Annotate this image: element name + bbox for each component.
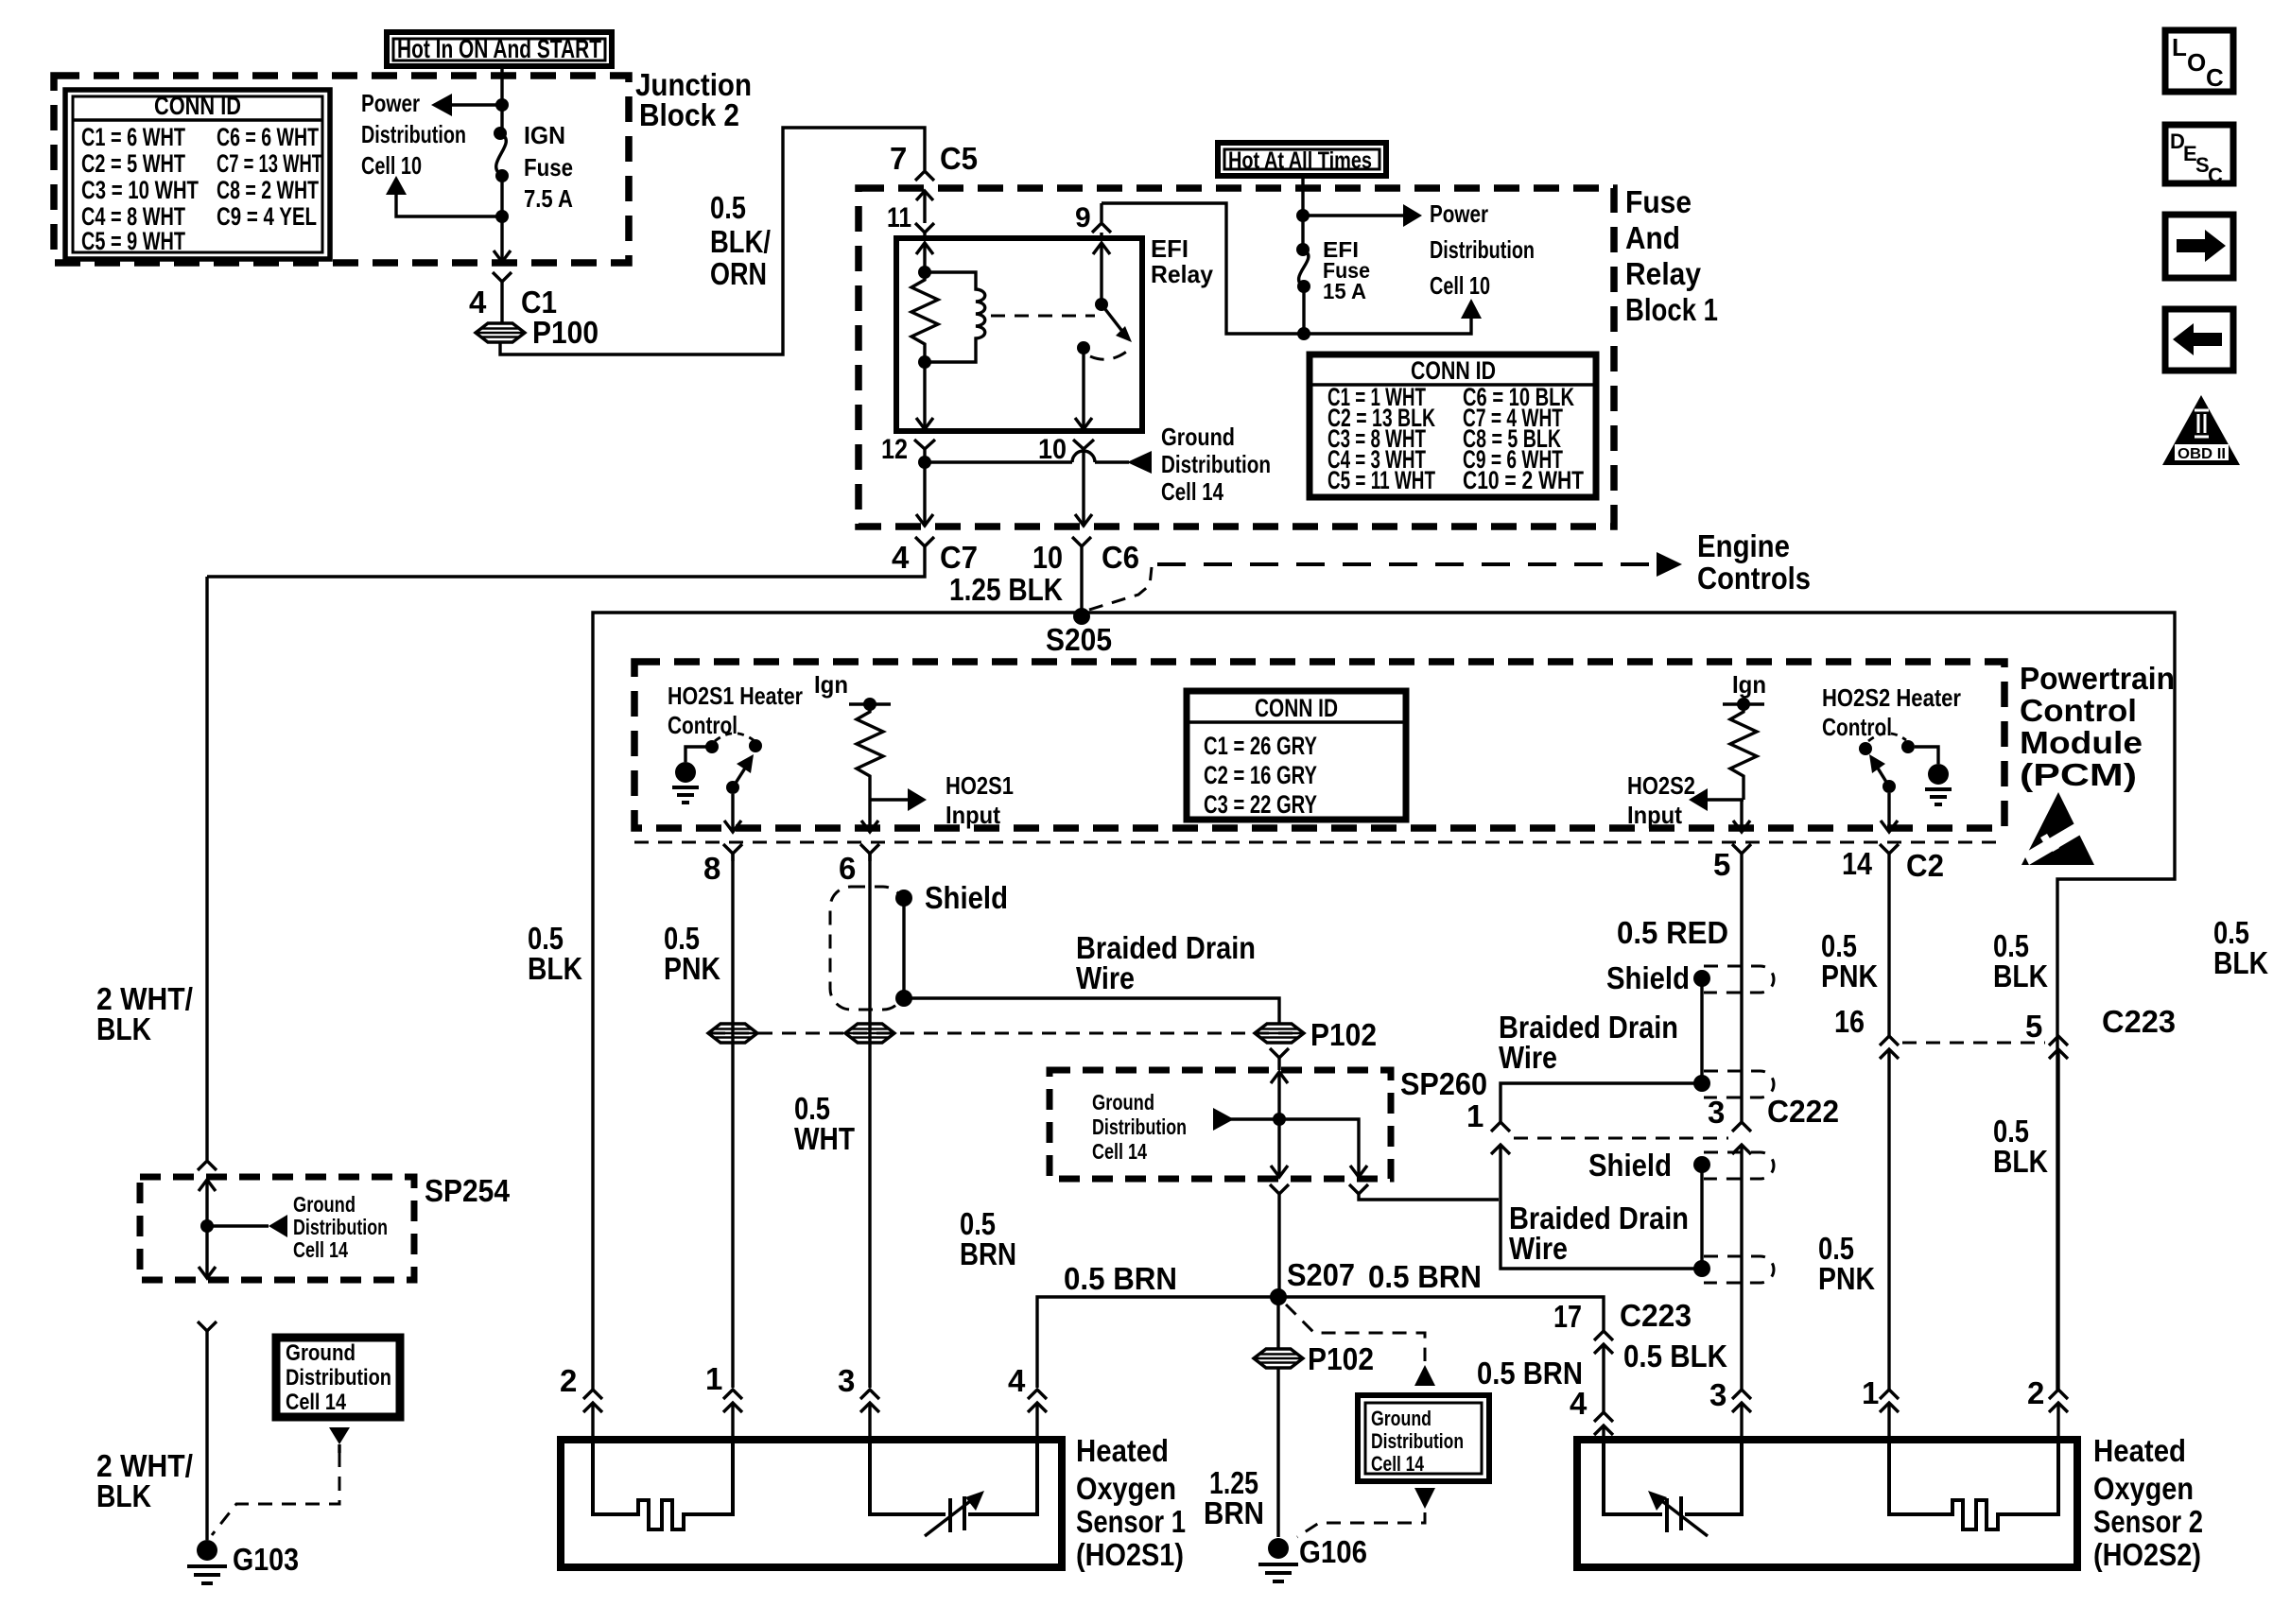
svg-text:Cell 14: Cell 14 [1161,477,1223,506]
wire jog continues below C223 pin5 [2056,1049,2059,1390]
svg-text:Cell 10: Cell 10 [361,151,422,180]
HO2S2 box [1577,1440,2077,1567]
svg-text:Control: Control [2020,693,2137,728]
svg-text:CONN ID: CONN ID [1411,356,1496,385]
svg-text:PNK: PNK [1821,959,1878,993]
svg-text:15 A: 15 A [1323,279,1366,303]
svg-text:P100: P100 [532,315,599,350]
svg-text:WHT: WHT [794,1121,855,1156]
svg-text:10: 10 [1038,434,1067,465]
HO2S1 box [561,1440,1062,1567]
svg-text:0.5 BRN: 0.5 BRN [1064,1261,1177,1296]
label 0.5 BLK/ORN [710,190,771,291]
svg-text:Sensor 2: Sensor 2 [2093,1504,2203,1539]
svg-text:5: 5 [2025,1009,2042,1044]
svg-text:2: 2 [2027,1375,2044,1410]
Hot In ON And START box [387,32,612,66]
label 2 WHT/ BLK lower [96,1448,193,1513]
svg-text:4: 4 [892,540,910,575]
svg-text:Power: Power [1430,199,1488,228]
down triangle below right GD box [1414,1488,1435,1509]
svg-text:Control: Control [1822,713,1892,741]
node and branch to Cell 10 (up arrow) [386,176,509,223]
svg-text:Block 2: Block 2 [639,97,739,132]
svg-text:Ground: Ground [1092,1090,1154,1114]
label 0.5 WHT [794,1091,855,1156]
svg-text:C7: C7 [940,540,978,575]
ground G106 [1258,1534,1367,1581]
svg-text:Powertrain: Powertrain [2020,661,2175,696]
svg-text:G103: G103 [233,1542,299,1577]
SP254 top chevron [198,1161,217,1170]
label Powertrain Control Module (PCM) [2020,661,2175,792]
svg-text:C: C [2206,63,2224,92]
shield upper (C222 above) [1606,960,1774,1097]
svg-text:C3 = 10 WHT: C3 = 10 WHT [81,176,199,204]
wire pin6 to HO2S1 pin3 [868,854,871,1388]
label 0.5 PNK lower [1818,1231,1875,1296]
inline connector on pin3 wire [845,1024,894,1043]
svg-text:2: 2 [560,1363,577,1398]
svg-text:0.5 BLK: 0.5 BLK [1623,1339,1727,1373]
EFI relay box [896,238,1142,431]
svg-text:Distribution: Distribution [1092,1114,1187,1139]
SP260 arrow from text [1213,1108,1279,1131]
svg-text:8: 8 [703,851,720,886]
svg-text:S205: S205 [1046,622,1112,657]
svg-text:1: 1 [705,1361,722,1396]
svg-text:Block 1: Block 1 [1625,292,1718,327]
relay pin 9 wire from EFI fuse [1075,202,1304,334]
relay pin 11 fork [887,202,934,238]
svg-text:CONN ID: CONN ID [1255,694,1338,722]
svg-text:Distribution: Distribution [286,1365,391,1391]
pin 6 wire and arrow [861,800,878,832]
HO2S2 input resistor [1730,704,1757,800]
wire C7 down left side [205,577,208,1160]
label 0.5 BLK (pin2 wire) [528,921,582,986]
relay actuation dashed link [991,315,1095,318]
svg-text:0.5 RED: 0.5 RED [1617,915,1728,950]
svg-text:Input: Input [946,801,1000,829]
svg-text:7: 7 [890,141,907,176]
left arrow icon [2165,309,2233,371]
svg-text:Shield: Shield [925,880,1008,915]
svg-text:Wire: Wire [1076,960,1135,995]
svg-text:C222: C222 [1767,1094,1839,1129]
svg-text:Sensor 1: Sensor 1 [1076,1504,1186,1539]
ground distribution branch with hop [918,451,1152,474]
svg-text:10: 10 [1032,540,1063,575]
SP260 bottom forks [1270,1184,1499,1297]
SP260 main down arrow [1271,1119,1288,1177]
engine controls dashed reference [1089,528,1811,610]
SP254 internal up arrow [199,1180,216,1226]
svg-text:C2 = 5 WHT: C2 = 5 WHT [81,149,185,178]
svg-text:Power: Power [361,89,420,117]
connector P102 lower [1254,1341,1374,1376]
wire P100 to C5 (0.5 BLK/ORN) [500,128,925,354]
up triangle above right GD box [1414,1365,1435,1386]
label Braided Drain Wire (top right) [1499,1010,1678,1075]
Ground Distribution Cell 14 box (left) [276,1338,400,1417]
svg-text:C223: C223 [1620,1298,1692,1333]
fuse and relay block 1 dashed outline [859,188,1614,527]
svg-text:HO2S1: HO2S1 [946,771,1014,800]
svg-text:C6 = 6 WHT: C6 = 6 WHT [217,123,319,151]
svg-text:14: 14 [1842,846,1873,881]
right arrow icon [2165,215,2233,278]
svg-text:C3 = 22 GRY: C3 = 22 GRY [1204,790,1317,819]
svg-text:Cell 10: Cell 10 [1430,271,1490,300]
wire PCM pin5 down through shields to C222 pin3 [1740,861,1743,1390]
HO2S1 Input arrow [870,771,1014,829]
svg-text:IGN: IGN [524,121,565,149]
label Heated Oxygen Sensor 1 (HO2S1) [1076,1433,1186,1572]
ESD symbol [2021,792,2094,865]
relay pin 10 fork below [1038,434,1094,527]
svg-text:1: 1 [1862,1375,1879,1410]
relay coil inductor [918,272,985,369]
svg-text:Input: Input [1627,801,1682,829]
connector C223 pin 17 [1553,1298,1692,1412]
pin 14 fork C2 [1842,844,1944,883]
shield around HO2S1 signal wire [830,880,1008,1010]
HO2S1 heater control switch [715,734,762,794]
ground bus wire from S205 [593,613,2175,1390]
connector P102 (drain) [1255,1017,1377,1052]
wire pin8 to HO2S1 pin1 [731,854,734,1388]
CONN ID table 3 (PCM) [1187,691,1406,820]
svg-text:G106: G106 [1299,1534,1367,1569]
label 0.5 BLK below C223-17 [1623,1339,1727,1373]
svg-text:Ground: Ground [286,1340,356,1366]
connector P100 [476,315,599,350]
svg-text:17: 17 [1553,1299,1582,1334]
svg-text:(HO2S2): (HO2S2) [2093,1537,2201,1572]
svg-text:O: O [2187,48,2206,77]
pin 5 wire and arrow [1733,800,1750,832]
svg-text:OBD II: OBD II [2178,446,2226,462]
svg-text:BLK: BLK [1993,959,2048,993]
wire from Hot box down to IGN fuse [500,66,503,131]
svg-text:Relay: Relay [1151,260,1214,288]
braided drain wire to P102 [904,998,1279,1024]
HO2S2 heater control switch ground [1915,747,1952,804]
label 2 WHT/ BLK upper [96,981,193,1046]
svg-text:PNK: PNK [664,951,720,986]
svg-text:P102: P102 [1310,1017,1377,1052]
P102 lower fork [1270,1048,1289,1070]
down triangle below left GD box [329,1427,350,1453]
svg-text:Module: Module [2020,725,2143,760]
svg-text:C5: C5 [940,141,978,176]
HO2S2 pin 4 chevrons [1570,1386,1613,1440]
fuse IGN 7.5 A [494,127,509,216]
svg-text:Cell 14: Cell 14 [286,1390,347,1415]
label 0.5 RED [1617,915,1728,950]
svg-text:6: 6 [839,851,856,886]
HO2S2 pin chevrons 3 1 2 [1709,1377,1751,1440]
svg-text:4: 4 [469,285,487,320]
Ground Distribution Cell 14 box (right) [1358,1395,1489,1481]
label EFI Fuse 15 A [1323,237,1370,303]
pin 5 fork [1713,844,1751,882]
label EFI Relay [1151,234,1214,288]
HO2S2 sensing element [1604,1440,1742,1536]
svg-text:Ign: Ign [1732,670,1766,699]
label 0.5 BLK lower [1993,1114,2048,1179]
CONN ID table 1 [65,90,330,259]
svg-text:Cell 14: Cell 14 [293,1237,348,1262]
svg-text:Cell 14: Cell 14 [1092,1139,1147,1164]
dashed reference to G106 [1297,1512,1425,1537]
label 0.5 PNK (pin8 wire) [664,921,720,986]
label HO2S2 Heater Control [1822,683,1961,741]
svg-text:5: 5 [1713,847,1730,882]
wire S207 down to P102 [1276,1297,1279,1348]
SP254 node and arrow to ground distribution [200,1215,287,1237]
Hot At All Times box [1218,143,1386,176]
node and arrow to Power Distribution [1296,204,1422,227]
connector C7 pin 4 [207,537,978,577]
HO2S1 heater control switch ground [672,740,719,803]
drain wire shield2 to C222 pin1 [1501,1083,1702,1122]
svg-text:Cell 14: Cell 14 [1371,1452,1425,1476]
relay switch [1077,243,1132,359]
fuse EFI 15 A [1296,243,1310,334]
connector C223 pins 16 / 5 [1834,1004,2176,1059]
svg-text:Hot In ON And START: Hot In ON And START [397,34,601,63]
connector C222 [1491,1094,1839,1200]
label 0.5 BRN left of S207 [1064,1261,1177,1296]
svg-text:Fuse: Fuse [524,153,573,181]
svg-text:3: 3 [838,1363,855,1398]
HO2S2 Input arrow [1627,771,1744,829]
pin 8 fork [703,844,742,886]
svg-text:C10 = 2 WHT: C10 = 2 WHT [1463,466,1584,494]
PCM connector interface dashed line [634,841,2004,844]
DESC icon [2165,125,2233,187]
wire pin14 down [1887,861,1890,1390]
SP260 right branch down arrow [1279,1119,1367,1177]
HO2S2 heater control switch [1859,734,1915,793]
splice SP260 dashed box [1050,1070,1391,1179]
svg-text:BLK: BLK [1993,1144,2048,1179]
svg-text:Shield: Shield [1606,960,1690,995]
label Ground Distribution Cell 14 (fuse block) [1161,423,1271,506]
connector C5 pin 7 [890,141,978,181]
inline connector on pin1 wire [708,1024,757,1043]
label Braided Drain Wire (left) [1076,930,1256,995]
svg-text:3: 3 [1708,1095,1725,1130]
junction block 2 dashed outline [54,76,629,263]
label SP254 [425,1173,511,1208]
label Braided Drain Wire (lower right) [1509,1201,1689,1266]
relay coil resistor [911,272,938,362]
label 1.25 BLK [949,572,1063,607]
pin 6 fork [839,844,879,886]
label IGN Fuse 7.5 A [524,121,573,213]
label Junction Block 2 [635,67,752,132]
svg-text:Ground: Ground [293,1192,356,1217]
svg-text:HO2S2 Heater: HO2S2 Heater [1822,683,1961,712]
label 0.5 PNK upper [1821,928,1878,993]
label SP260 and C222 pin 1 [1400,1066,1487,1133]
wire S207 to HO2S1 pin 4 [1037,1297,1278,1388]
svg-text:ORN: ORN [710,256,767,291]
svg-text:HO2S1 Heater: HO2S1 Heater [668,682,803,710]
svg-text:C7 = 13 WHT: C7 = 13 WHT [217,149,322,178]
svg-text:(HO2S1): (HO2S1) [1076,1537,1184,1572]
SP260 node [1273,1113,1286,1126]
label Ground Distribution Cell 14 (SP254) [293,1192,388,1262]
svg-text:BRN: BRN [960,1236,1016,1271]
splice SP254 dashed box [140,1177,414,1280]
svg-text:Distribution: Distribution [1371,1429,1464,1453]
svg-text:Ign: Ign [814,670,848,699]
svg-text:C223: C223 [2102,1004,2176,1039]
svg-text:P102: P102 [1308,1341,1374,1376]
svg-text:1: 1 [1466,1098,1484,1133]
svg-text:BLK: BLK [96,1011,151,1046]
dashed reference S207 to GD box [1286,1304,1425,1361]
splice S205 [1046,608,1112,657]
wire S207 to C223 pin 17 [1278,1297,1604,1331]
ground G103 [187,1540,299,1583]
svg-text:Heated: Heated [2093,1433,2186,1468]
svg-text:0.5: 0.5 [710,190,746,225]
connector C6 pin 10 [1032,537,1139,616]
svg-text:C6: C6 [1102,540,1139,575]
Ign feed right [1723,670,1766,711]
svg-text:C1 = 26 GRY: C1 = 26 GRY [1204,732,1317,760]
svg-text:C1 = 6 WHT: C1 = 6 WHT [81,123,185,151]
wire down to C1 with connector arrow [494,216,511,262]
HO2S1 sensing element [870,1440,1037,1536]
OBD II icon [2162,395,2240,465]
svg-text:S207: S207 [1287,1257,1355,1292]
HO2S1 input resistor [857,704,883,800]
svg-text:12: 12 [881,434,908,465]
label 0.5 BLK upper (pin5 side) [1993,928,2048,993]
svg-text:BLK: BLK [2213,945,2268,980]
svg-text:9: 9 [1075,202,1091,233]
wire from Hot At All Times down [1301,176,1304,250]
node under EFI fuse, branch to cell 10 up arrow [1297,299,1482,340]
svg-text:Ground: Ground [1371,1407,1431,1430]
label 0.5 BRN (above S207) [960,1206,1016,1271]
arrow to Power Distribution [431,94,502,116]
svg-text:C8 = 2 WHT: C8 = 2 WHT [217,176,319,204]
label Ground Distribution Cell 14 (SP260) [1092,1090,1187,1164]
svg-text:7.5 A: 7.5 A [524,184,573,213]
svg-text:1.25 BLK: 1.25 BLK [949,572,1063,607]
relay switch to pin 10 arrow [1075,354,1092,429]
svg-text:16: 16 [1834,1004,1865,1039]
svg-text:Distribution: Distribution [1161,450,1271,478]
svg-text:Relay: Relay [1625,256,1702,291]
svg-text:L: L [2172,33,2187,61]
svg-text:Shield: Shield [1588,1148,1672,1183]
label HO2S1 Heater Control [668,682,803,739]
dashed reference to G103 [212,1453,339,1535]
CONN ID table 2 (fuse block) [1310,354,1596,497]
svg-text:C2: C2 [1906,848,1944,883]
C5 male pin arrow into block [916,191,933,223]
svg-text:BLK: BLK [528,951,582,986]
relay pin 12 fork below [881,434,935,527]
svg-text:Distribution: Distribution [1430,235,1535,264]
label 0.5 BRN right of S207 [1368,1259,1482,1294]
svg-text:C5 = 9 WHT: C5 = 9 WHT [81,227,185,255]
svg-text:SP254: SP254 [425,1173,511,1208]
HO2S2 heater pin 14 wire arrow [1881,793,1898,832]
label 0.5 BRN left [1477,1356,1583,1391]
svg-text:Controls: Controls [1697,561,1811,596]
PCM dashed outline [634,662,2004,828]
P102 interface dashed line [711,1032,1302,1035]
svg-text:Oxygen: Oxygen [2093,1471,2194,1506]
svg-text:EFI: EFI [1151,234,1189,263]
svg-text:C: C [2208,164,2223,187]
label Power Distribution Cell 10 [361,89,466,180]
relay coil to bottom pin 12 arrow [916,362,933,429]
svg-text:Ground: Ground [1161,423,1235,451]
HO2S2 heater element [1889,1440,2058,1529]
svg-text:SP260: SP260 [1400,1066,1487,1101]
svg-text:0.5 BRN: 0.5 BRN [1477,1356,1583,1391]
node on wire at power branch [495,98,509,112]
svg-text:(PCM): (PCM) [2020,757,2137,792]
svg-text:11: 11 [887,202,911,233]
svg-text:Oxygen: Oxygen [1076,1471,1176,1506]
splice S207 [1270,1257,1355,1305]
LOC icon [2165,30,2233,92]
HO2S1 heater element [593,1440,733,1529]
svg-text:Engine: Engine [1697,528,1790,563]
HO2S1 pin chevrons 2 1 3 4 [560,1363,602,1440]
svg-text:BRN: BRN [1204,1495,1264,1530]
svg-text:4: 4 [1570,1386,1588,1421]
SP260 internal up arrow [1271,1072,1288,1119]
relay coil branch internal arrow [916,243,933,279]
svg-text:C9 = 4 YEL: C9 = 4 YEL [217,202,317,231]
svg-text:4: 4 [1008,1363,1026,1398]
svg-text:Heated: Heated [1076,1433,1169,1468]
svg-text:Fuse: Fuse [1625,184,1692,219]
svg-text:0.5 BRN: 0.5 BRN [1368,1259,1482,1294]
label Power Distribution Cell 10 (right) [1430,199,1535,300]
wire P102 to G106 (1.25 BRN) [1276,1369,1279,1537]
Ign feed left [814,670,891,711]
SP254 bottom fork [198,1322,217,1540]
svg-text:HO2S2: HO2S2 [1627,771,1695,800]
svg-text:And: And [1625,220,1680,255]
svg-text:Distribution: Distribution [293,1215,388,1239]
svg-text:C2 = 16 GRY: C2 = 16 GRY [1204,761,1317,789]
drain wire below C222 to shield3 [1501,1200,1698,1269]
label Fuse And Relay Block 1 [1625,184,1718,327]
svg-text:Distribution: Distribution [361,120,466,148]
svg-text:BLK: BLK [96,1478,151,1513]
connector C1 pin 4 female fork [469,272,557,323]
block bottom male arrows C7 C6 [916,514,1092,526]
label 1.25 BRN [1204,1465,1264,1530]
shield lower (C222 below) [1588,1148,1774,1283]
svg-text:CONN ID: CONN ID [154,92,241,120]
label 0.5 BLK far right [2213,915,2268,980]
